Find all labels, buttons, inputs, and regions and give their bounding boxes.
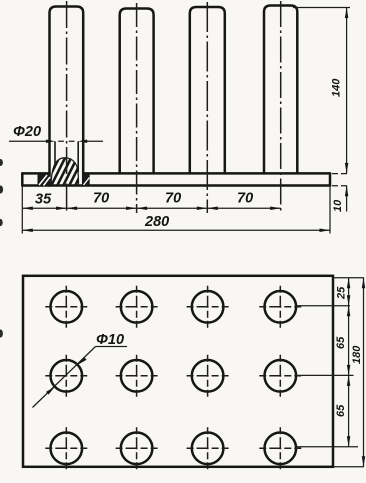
arrow 280 right end <box>320 229 331 233</box>
hole r1c2 <box>116 286 158 328</box>
scan edge artifacts <box>0 159 3 338</box>
pin 4 centerline <box>280 1 282 213</box>
arrow 65b bottom end <box>347 436 351 447</box>
Ф20 arrow left <box>46 140 55 144</box>
hole r3c1 <box>45 427 87 469</box>
broken-out section hatch left plate wall <box>38 174 51 186</box>
plate top surface line <box>22 172 330 175</box>
plate bottom line <box>22 184 330 187</box>
arrow 140 bottom end <box>345 163 349 174</box>
dimension line 180 <box>363 278 365 467</box>
pin 3 centerline <box>206 2 208 213</box>
plate right edge <box>329 173 332 185</box>
arrow 70c left end <box>207 206 218 210</box>
hole r3c4 <box>259 427 301 469</box>
leader Ф10 arrow lower left <box>46 387 55 395</box>
arrow 70a left end <box>67 206 78 210</box>
extension row1 <box>297 305 350 307</box>
hole r2c1 <box>45 355 87 397</box>
arrow 70b right end <box>197 206 208 210</box>
pin 2 <box>120 9 154 174</box>
hole r1c3 <box>187 286 229 328</box>
pin 1 centerline <box>66 1 68 213</box>
svg-text:65: 65 <box>335 336 347 349</box>
svg-text:70: 70 <box>165 191 181 207</box>
leader Ф10 arrow upper right <box>78 357 87 365</box>
arrow 70a right end <box>126 206 137 210</box>
svg-text:140: 140 <box>331 78 343 97</box>
arrow 10 lower end <box>345 186 349 197</box>
svg-text:65: 65 <box>335 404 347 417</box>
svg-text:10: 10 <box>332 199 344 212</box>
svg-text:280: 280 <box>144 214 169 230</box>
arrow 65a top end <box>347 306 351 317</box>
dimension 10 extension dashes <box>332 174 349 186</box>
pin 1 section hatching <box>37 150 87 202</box>
dimension line 25/65/65 <box>348 278 350 447</box>
svg-text:70: 70 <box>237 191 253 207</box>
arrow 35 right end <box>56 206 67 210</box>
extension bottom edge <box>333 466 364 468</box>
arrow 65a bottom end <box>347 365 351 376</box>
leader Ф10 diagonal line <box>33 347 96 408</box>
arrow 70c right end <box>270 206 281 210</box>
pin 3 <box>190 7 225 173</box>
hole r1c4 <box>259 286 301 328</box>
dimension 140 line <box>346 8 348 174</box>
svg-text:35: 35 <box>35 192 52 208</box>
leader Ф10 shelf <box>96 346 128 348</box>
arrow 180 top end <box>362 278 366 289</box>
hole r2c3 <box>187 355 229 397</box>
arrow 140 top end <box>345 8 349 19</box>
arrow 70b left end <box>137 206 148 210</box>
hole r3c3 <box>187 427 229 469</box>
arrow 65b top end <box>347 375 351 386</box>
svg-text:70: 70 <box>93 191 109 207</box>
top view plate rectangle <box>23 276 333 467</box>
shank hole wall extension left <box>54 141 56 167</box>
dimension 140 top extension <box>293 7 350 9</box>
pin 4 <box>264 6 297 174</box>
front view plate body <box>22 173 330 185</box>
dimension 280 extension left <box>21 186 23 234</box>
arrow 25 top end <box>347 278 351 289</box>
hole r2c4 <box>259 355 301 397</box>
arrow 180 bottom end <box>362 456 366 467</box>
dimension 280 line <box>22 229 330 231</box>
pin 1 (sectioned, passes through plate) <box>50 7 84 186</box>
hole r1c1 <box>45 286 87 328</box>
plate left edge <box>21 173 24 185</box>
dimension 10 lower line <box>346 186 348 212</box>
break line (dome) over pin 1 section <box>51 158 79 185</box>
dimension 280 extension right <box>329 186 331 234</box>
Ф20 arrow right <box>78 140 87 144</box>
arrow 280 left end <box>22 229 33 233</box>
top view right: extension top edge <box>333 277 364 279</box>
holes grid <box>45 286 301 470</box>
extension row2 <box>297 374 354 376</box>
svg-text:25: 25 <box>336 286 348 300</box>
hole r2c2 <box>116 355 158 397</box>
diameter dimension Ф20 line <box>9 140 103 142</box>
svg-text:180: 180 <box>351 345 363 364</box>
dimension row 35/70/70/70 line <box>22 207 280 209</box>
svg-text:Φ10: Φ10 <box>96 332 124 348</box>
shank hole wall extension right <box>77 141 79 172</box>
arrow 35 left end <box>22 206 33 210</box>
svg-text:Φ20: Φ20 <box>13 124 41 140</box>
hole r3c2 <box>116 427 158 469</box>
pin 2 centerline <box>136 3 138 213</box>
extension row3 <box>297 446 358 448</box>
broken-out section hatch right plate wall <box>83 174 90 185</box>
arrow 25 bottom end <box>347 295 351 306</box>
